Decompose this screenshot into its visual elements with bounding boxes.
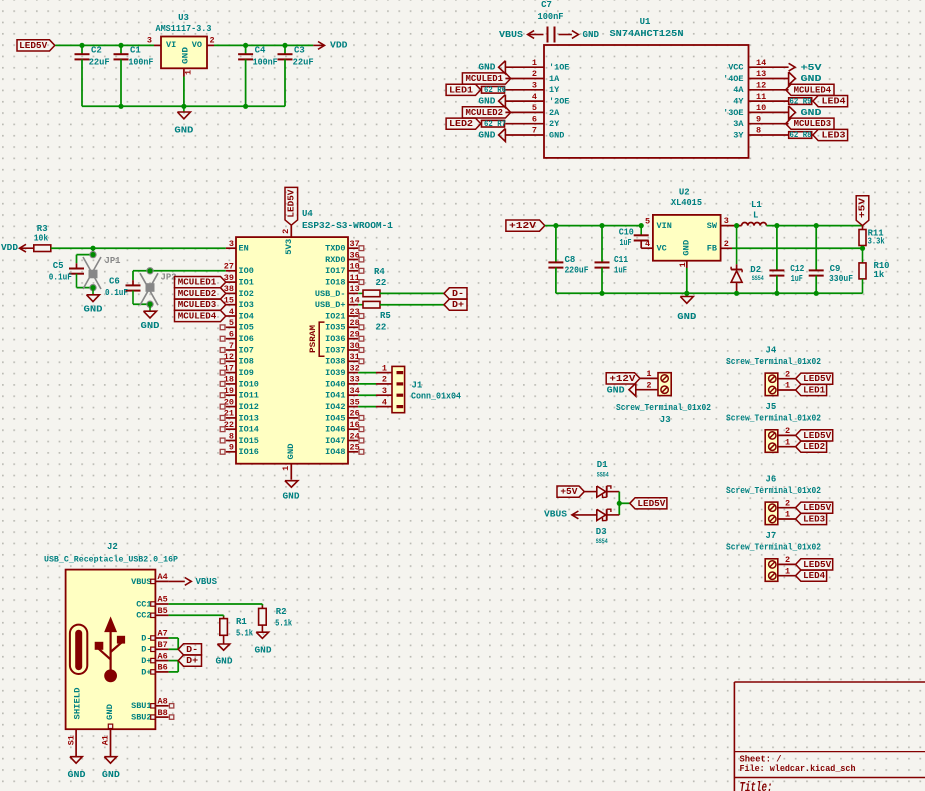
svg-text:Screw_Terminal_01x02: Screw_Terminal_01x02 bbox=[726, 357, 821, 367]
svg-text:100nF: 100nF bbox=[538, 12, 564, 22]
diode D2 SS54 bbox=[736, 226, 738, 265]
svg-text:A4: A4 bbox=[158, 572, 168, 582]
J2 pin B5 CC2 bbox=[155, 614, 168, 616]
svg-text:LED5V: LED5V bbox=[803, 374, 832, 384]
global label MCULED2 at IO2 bbox=[175, 288, 226, 299]
svg-text:IO9: IO9 bbox=[239, 368, 254, 378]
svg-text:IO18: IO18 bbox=[325, 278, 345, 288]
svg-text:L1: L1 bbox=[751, 200, 762, 210]
J4 pin 1 bbox=[778, 389, 796, 391]
svg-text:5V3: 5V3 bbox=[284, 239, 294, 255]
U4 pin 3 EN bbox=[226, 247, 236, 249]
inductor L1 bbox=[742, 223, 767, 226]
U4 pin 2 5V3 bbox=[290, 225, 292, 237]
svg-text:1: 1 bbox=[646, 369, 651, 379]
global label MCULED1 at IO1 bbox=[175, 277, 226, 288]
svg-text:GND: GND bbox=[801, 73, 822, 84]
ground at J3 pin 2 bbox=[629, 383, 636, 396]
wire junction to JP1 bbox=[92, 248, 94, 254]
svg-text:C7: C7 bbox=[541, 0, 552, 10]
svg-text:R2: R2 bbox=[276, 607, 287, 617]
svg-text:13: 13 bbox=[756, 69, 766, 79]
global label D- at J2 bbox=[178, 644, 201, 655]
svg-text:4: 4 bbox=[382, 397, 387, 407]
svg-text:10: 10 bbox=[350, 262, 360, 272]
connector J6 Screw_Terminal_01x02 bbox=[765, 502, 778, 524]
global label LED4 bbox=[813, 96, 848, 107]
svg-text:VBUS: VBUS bbox=[544, 510, 568, 520]
capacitor C6 bbox=[132, 280, 134, 285]
svg-text:2: 2 bbox=[646, 380, 651, 390]
svg-text:100nF: 100nF bbox=[253, 58, 278, 68]
svg-text:LED5V: LED5V bbox=[19, 41, 48, 51]
svg-text:J3: J3 bbox=[660, 415, 671, 425]
global label LED1 bbox=[446, 84, 481, 95]
svg-text:'3OE: '3OE bbox=[723, 108, 743, 118]
J7 pin 2 bbox=[778, 563, 796, 565]
global label LED5V bbox=[17, 40, 55, 51]
svg-text:IO11: IO11 bbox=[239, 391, 259, 401]
svg-text:MCULED4: MCULED4 bbox=[794, 85, 832, 95]
svg-text:B5: B5 bbox=[158, 606, 168, 616]
capacitor C2 bbox=[81, 45, 83, 54]
svg-text:1: 1 bbox=[532, 58, 537, 68]
svg-text:IO45: IO45 bbox=[325, 413, 345, 423]
J1 pin 2 bbox=[376, 383, 392, 385]
svg-text:A8: A8 bbox=[158, 697, 168, 707]
U4 pin 24 IO47 bbox=[348, 440, 358, 442]
wire IO42 to J1 pin 4 bbox=[358, 406, 376, 408]
svg-text:IO39: IO39 bbox=[325, 368, 345, 378]
svg-text:6: 6 bbox=[229, 330, 234, 340]
U4 pin 25 IO48 bbox=[348, 451, 358, 453]
J6 pin 1 bbox=[778, 518, 796, 520]
module U4 ESP32-S3-WROOM-1 bbox=[236, 237, 348, 464]
J3 pin 1 bbox=[640, 377, 658, 379]
J2 pin B8 SBU2 bbox=[155, 716, 168, 718]
connector J5 Screw_Terminal_01x02 bbox=[765, 430, 778, 453]
svg-text:1: 1 bbox=[785, 381, 790, 391]
junction bbox=[90, 252, 95, 257]
svg-text:+5V: +5V bbox=[801, 62, 822, 73]
U4 pin 26 IO45 bbox=[348, 417, 358, 419]
svg-text:+5V: +5V bbox=[560, 487, 578, 497]
capacitor C5 bbox=[76, 263, 78, 268]
svg-text:AMS1117-3.3: AMS1117-3.3 bbox=[156, 24, 212, 34]
svg-text:IO35: IO35 bbox=[325, 323, 345, 333]
junction bbox=[118, 43, 123, 48]
svg-text:U3: U3 bbox=[178, 13, 189, 23]
wire D- pins bbox=[169, 637, 179, 639]
svg-text:Screw_Terminal_01x02: Screw_Terminal_01x02 bbox=[616, 403, 711, 413]
global label +5V at D1 bbox=[557, 486, 584, 497]
U4 pin 23 IO21 bbox=[348, 315, 358, 317]
svg-text:A7: A7 bbox=[158, 629, 168, 639]
svg-text:1: 1 bbox=[382, 363, 387, 373]
svg-text:Screw_Terminal_01x02: Screw_Terminal_01x02 bbox=[726, 543, 821, 553]
svg-text:IO8: IO8 bbox=[239, 357, 254, 367]
svg-text:IO38: IO38 bbox=[325, 357, 345, 367]
U1 pin 9 3A bbox=[749, 123, 789, 125]
global label MCULED4 bbox=[786, 84, 834, 95]
U1 pin 2 1A bbox=[505, 78, 544, 80]
svg-text:32: 32 bbox=[350, 363, 360, 373]
svg-text:LED5V: LED5V bbox=[803, 431, 832, 441]
svg-text:C12: C12 bbox=[790, 264, 804, 274]
power symbol GND at C7 bbox=[559, 34, 572, 36]
svg-text:LED1: LED1 bbox=[449, 85, 474, 95]
svg-text:LED3: LED3 bbox=[822, 131, 846, 141]
ground at U1 pin 7 bbox=[499, 129, 506, 142]
svg-text:4Y: 4Y bbox=[733, 97, 744, 107]
U3 pin 2 bbox=[207, 44, 214, 46]
resistor R11 bbox=[862, 226, 864, 230]
svg-text:3: 3 bbox=[532, 81, 537, 91]
J2 pin B7 D- bbox=[155, 648, 168, 650]
svg-text:LED2: LED2 bbox=[803, 442, 825, 452]
ground at U1 pin 4 bbox=[499, 95, 506, 108]
svg-text:MCULED2: MCULED2 bbox=[178, 289, 217, 299]
svg-text:100nF: 100nF bbox=[128, 58, 153, 68]
svg-text:3Y: 3Y bbox=[733, 130, 744, 140]
svg-text:Screw_Terminal_01x02: Screw_Terminal_01x02 bbox=[726, 414, 821, 424]
svg-text:C5: C5 bbox=[53, 261, 64, 271]
svg-text:12: 12 bbox=[756, 81, 766, 91]
svg-text:10k: 10k bbox=[34, 234, 49, 244]
ground bbox=[183, 106, 185, 112]
junction bbox=[147, 268, 152, 273]
svg-text:J7: J7 bbox=[766, 531, 777, 541]
wire VO to VDD bbox=[214, 44, 313, 46]
wire L1 to +5V bbox=[766, 225, 862, 227]
svg-text:1: 1 bbox=[281, 466, 291, 471]
U3 pin 3 bbox=[154, 44, 161, 46]
svg-text:35: 35 bbox=[350, 397, 360, 407]
power symbol VBUS at J2 bbox=[169, 580, 185, 582]
capacitor C11 bbox=[601, 226, 603, 263]
wire IO40 to J1 pin 2 bbox=[358, 383, 376, 385]
svg-text:EN: EN bbox=[239, 244, 249, 254]
svg-text:GND: GND bbox=[255, 646, 273, 656]
svg-text:VBUS: VBUS bbox=[499, 30, 524, 40]
svg-text:ESP32-S3-WROOM-1: ESP32-S3-WROOM-1 bbox=[302, 221, 394, 231]
svg-text:D+: D+ bbox=[452, 300, 464, 310]
svg-text:2: 2 bbox=[785, 498, 790, 508]
global label +12V at J3 bbox=[606, 373, 640, 384]
svg-text:GND: GND bbox=[677, 312, 697, 322]
svg-text:62 R6: 62 R6 bbox=[484, 87, 506, 95]
global label LED2 at J5 bbox=[796, 441, 827, 452]
global label MCULED3 bbox=[786, 118, 834, 129]
svg-text:USB_D+: USB_D+ bbox=[315, 300, 346, 310]
U4 pin 28 IO35 bbox=[348, 326, 358, 328]
svg-text:33: 33 bbox=[350, 375, 360, 385]
resistor R3 bbox=[34, 245, 51, 252]
svg-text:CC2: CC2 bbox=[136, 611, 151, 621]
junction bbox=[79, 43, 84, 48]
U4 pin 21 IO13 bbox=[226, 417, 236, 419]
junction bbox=[734, 291, 739, 296]
svg-text:XL4015: XL4015 bbox=[671, 198, 702, 208]
global label LED5V at U4 5V3 bbox=[285, 187, 298, 225]
svg-text:3: 3 bbox=[724, 216, 729, 226]
svg-text:2: 2 bbox=[724, 239, 729, 249]
no-connect SBU1 bbox=[169, 704, 173, 708]
svg-text:D+: D+ bbox=[141, 667, 151, 677]
svg-text:LED4: LED4 bbox=[822, 97, 847, 107]
svg-text:+12V: +12V bbox=[509, 221, 537, 231]
svg-text:GND: GND bbox=[181, 47, 191, 64]
svg-text:2A: 2A bbox=[549, 108, 560, 118]
svg-text:IO0: IO0 bbox=[239, 266, 254, 276]
svg-text:7: 7 bbox=[229, 341, 234, 351]
J2 pin B6 D+ bbox=[155, 671, 168, 673]
svg-text:GND: GND bbox=[607, 384, 625, 395]
svg-text:2: 2 bbox=[785, 555, 790, 565]
svg-text:B8: B8 bbox=[158, 708, 168, 718]
J4 pin 2 bbox=[778, 378, 796, 380]
svg-text:2: 2 bbox=[382, 375, 387, 385]
svg-text:MCULED4: MCULED4 bbox=[178, 312, 217, 322]
connector J4 Screw_Terminal_01x02 bbox=[765, 373, 778, 396]
svg-text:IO40: IO40 bbox=[325, 379, 345, 389]
svg-text:FB: FB bbox=[707, 244, 717, 254]
svg-text:C8: C8 bbox=[565, 255, 576, 265]
J1 pin 1 bbox=[376, 372, 392, 374]
svg-text:220uF: 220uF bbox=[565, 265, 589, 275]
svg-text:14: 14 bbox=[756, 58, 766, 68]
connector J2 USB_C_Receptacle_USB2.0_16P bbox=[66, 570, 156, 730]
svg-text:C10: C10 bbox=[619, 228, 634, 238]
svg-text:1Y: 1Y bbox=[549, 85, 560, 95]
svg-text:GND: GND bbox=[141, 321, 161, 331]
U4 pin 38 IO2 bbox=[226, 292, 236, 294]
svg-text:Screw_Terminal_01x02: Screw_Terminal_01x02 bbox=[726, 486, 821, 496]
svg-text:R4: R4 bbox=[374, 267, 385, 277]
svg-text:R1: R1 bbox=[236, 617, 247, 627]
svg-text:RXD0: RXD0 bbox=[325, 255, 345, 265]
U3 pin 1 bbox=[183, 68, 185, 76]
U2 pin 2 FB bbox=[721, 247, 732, 249]
svg-text:1k: 1k bbox=[874, 270, 885, 280]
ground under JP1 bbox=[92, 288, 94, 295]
svg-text:16: 16 bbox=[350, 420, 360, 430]
svg-text:13: 13 bbox=[350, 284, 360, 294]
svg-text:D+: D+ bbox=[186, 656, 198, 666]
global label LED3 bbox=[813, 129, 848, 140]
capacitor C8 bbox=[555, 226, 557, 263]
IC U1 SN74AHCT125N bbox=[544, 45, 749, 158]
svg-text:'1OE: '1OE bbox=[549, 63, 569, 73]
junction bbox=[639, 223, 644, 228]
global label MCULED4 at IO4 bbox=[175, 310, 226, 321]
U1 pin 5 2A bbox=[505, 111, 544, 113]
U4 pin 29 IO36 bbox=[348, 338, 358, 340]
connector J7 Screw_Terminal_01x02 bbox=[765, 559, 778, 582]
svg-text:USB_C_Receptacle_USB2.0_16P: USB_C_Receptacle_USB2.0_16P bbox=[44, 554, 178, 564]
svg-text:USB_D-: USB_D- bbox=[315, 289, 346, 299]
svg-text:IO13: IO13 bbox=[239, 413, 259, 423]
svg-text:IO36: IO36 bbox=[325, 334, 345, 344]
wire R5 to D+ bbox=[380, 304, 444, 306]
svg-text:SBU1: SBU1 bbox=[131, 701, 151, 711]
junction bbox=[243, 104, 248, 109]
U1 pin 11 4Y bbox=[749, 100, 789, 102]
svg-text:2Y: 2Y bbox=[549, 119, 560, 129]
svg-text:D-: D- bbox=[141, 633, 151, 643]
svg-text:R5: R5 bbox=[380, 311, 391, 321]
J7 pin 1 bbox=[778, 575, 796, 577]
svg-text:SBU2: SBU2 bbox=[131, 713, 151, 723]
svg-text:'4OE: '4OE bbox=[723, 74, 743, 84]
svg-text:GND: GND bbox=[549, 130, 564, 140]
U1 pin 6 2Y bbox=[505, 123, 544, 125]
svg-text:'2OE: '2OE bbox=[549, 97, 569, 107]
junction bbox=[599, 223, 604, 228]
U1 pin 13 4OE bbox=[749, 78, 789, 80]
svg-text:IO14: IO14 bbox=[239, 425, 259, 435]
svg-text:5.1k: 5.1k bbox=[236, 629, 253, 639]
svg-text:8: 8 bbox=[229, 431, 234, 441]
svg-text:29: 29 bbox=[350, 330, 360, 340]
connector J3 Screw_Terminal_01x02 bbox=[658, 373, 671, 396]
U4 pin 34 IO41 bbox=[348, 394, 358, 396]
wire IO39 to J1 pin 1 bbox=[358, 372, 376, 374]
junction bbox=[599, 291, 604, 296]
svg-text:IO12: IO12 bbox=[239, 402, 259, 412]
wire ground rail bbox=[82, 105, 285, 107]
junction bbox=[860, 246, 865, 251]
J2 pin A4 VBUS bbox=[155, 580, 168, 582]
svg-text:GND: GND bbox=[478, 97, 496, 107]
svg-text:JP1: JP1 bbox=[105, 256, 122, 266]
svg-text:4A: 4A bbox=[733, 85, 744, 95]
svg-text:IO2: IO2 bbox=[239, 289, 254, 299]
wire D1 to junction bbox=[618, 492, 620, 504]
svg-text:4: 4 bbox=[532, 92, 537, 102]
U4 pin 16 IO46 bbox=[348, 428, 358, 430]
wire R4 to D- bbox=[380, 292, 444, 294]
svg-text:A6: A6 bbox=[158, 651, 168, 661]
svg-text:GND: GND bbox=[583, 30, 600, 40]
svg-text:LED5V: LED5V bbox=[286, 189, 296, 218]
svg-text:9: 9 bbox=[756, 114, 761, 124]
svg-text:IO15: IO15 bbox=[239, 436, 259, 446]
U4 pin 8 IO15 bbox=[226, 440, 236, 442]
wire junction to D3 bbox=[618, 503, 620, 515]
global label LED1 at J4 bbox=[796, 384, 827, 395]
svg-text:D-: D- bbox=[141, 645, 151, 655]
junction bbox=[617, 501, 622, 506]
power symbol VDD bbox=[313, 44, 324, 46]
resistor R2 bbox=[261, 606, 263, 609]
svg-text:VCC: VCC bbox=[728, 63, 743, 73]
U1 pin 7 GND bbox=[505, 134, 544, 136]
J6 pin 2 bbox=[778, 507, 796, 509]
svg-text:U2: U2 bbox=[679, 187, 690, 197]
global label LED2 bbox=[446, 118, 481, 129]
svg-text:22: 22 bbox=[376, 278, 387, 288]
wire U2 GND to rail bbox=[686, 268, 688, 297]
resistor R4 bbox=[358, 292, 363, 294]
svg-text:MCULED2: MCULED2 bbox=[466, 108, 504, 118]
junction bbox=[774, 223, 779, 228]
svg-text:Title:: Title: bbox=[740, 781, 773, 791]
junction bbox=[553, 223, 558, 228]
svg-text:GND: GND bbox=[84, 305, 104, 315]
junction bbox=[814, 291, 819, 296]
svg-text:C2: C2 bbox=[91, 46, 102, 56]
global label LED3 at J6 bbox=[796, 513, 827, 524]
global label LED5V at diodes bbox=[630, 498, 667, 509]
J3 pin 2 bbox=[636, 389, 658, 391]
svg-text:1: 1 bbox=[678, 262, 688, 267]
svg-text:MCULED3: MCULED3 bbox=[794, 119, 832, 129]
svg-text:IO47: IO47 bbox=[325, 436, 345, 446]
svg-text:5.1k: 5.1k bbox=[275, 619, 292, 629]
svg-text:D1: D1 bbox=[597, 460, 608, 470]
svg-text:J5: J5 bbox=[766, 402, 777, 412]
U4 pin 11 IO18 bbox=[348, 281, 358, 283]
svg-text:2: 2 bbox=[785, 426, 790, 436]
U4 pin 35 IO42 bbox=[348, 406, 358, 408]
junction bbox=[181, 104, 186, 109]
capacitor C1 bbox=[120, 45, 122, 54]
resistor R10 bbox=[862, 248, 864, 263]
svg-text:+12V: +12V bbox=[609, 374, 636, 384]
svg-text:28: 28 bbox=[350, 318, 360, 328]
svg-text:22: 22 bbox=[376, 323, 387, 333]
svg-text:62 R9: 62 R9 bbox=[790, 98, 812, 106]
svg-text:IO48: IO48 bbox=[325, 447, 345, 457]
svg-text:MCULED3: MCULED3 bbox=[178, 300, 217, 310]
resistor R9 bbox=[789, 98, 812, 105]
svg-text:VC: VC bbox=[657, 244, 667, 254]
global label D+ bbox=[444, 299, 467, 310]
svg-text:2: 2 bbox=[281, 229, 291, 234]
svg-text:36: 36 bbox=[350, 250, 360, 260]
junction bbox=[90, 246, 95, 251]
svg-text:IO4: IO4 bbox=[239, 311, 254, 321]
svg-text:GND: GND bbox=[105, 704, 115, 720]
svg-text:34: 34 bbox=[350, 386, 360, 396]
svg-text:S1: S1 bbox=[66, 735, 76, 745]
junction bbox=[282, 43, 287, 48]
svg-text:IO5: IO5 bbox=[239, 323, 254, 333]
svg-text:5: 5 bbox=[645, 216, 650, 226]
wire IO0 to JP2 bbox=[150, 270, 226, 272]
U4 pin 7 IO7 bbox=[226, 349, 236, 351]
svg-text:SS54: SS54 bbox=[597, 471, 609, 478]
svg-text:SHIELD: SHIELD bbox=[72, 688, 82, 720]
U4 pin 10 IO17 bbox=[348, 270, 358, 272]
J2 pin A6 D+ bbox=[155, 660, 168, 662]
global label MCULED3 at IO3 bbox=[175, 299, 226, 310]
svg-text:L: L bbox=[753, 211, 758, 221]
global label D- bbox=[444, 288, 467, 299]
no-connect SBU2 bbox=[169, 715, 173, 719]
svg-text:GND: GND bbox=[68, 770, 87, 780]
svg-text:SW: SW bbox=[707, 221, 718, 231]
U4 pin 36 RXD0 bbox=[348, 259, 358, 261]
svg-text:IO6: IO6 bbox=[239, 334, 254, 344]
wire LED5V to U3 VI bbox=[55, 44, 154, 46]
svg-text:330uF: 330uF bbox=[829, 274, 853, 284]
svg-text:24: 24 bbox=[350, 431, 360, 441]
svg-text:3A: 3A bbox=[733, 119, 744, 129]
svg-text:IO1: IO1 bbox=[239, 278, 254, 288]
U1 pin 8 3Y bbox=[749, 134, 789, 136]
